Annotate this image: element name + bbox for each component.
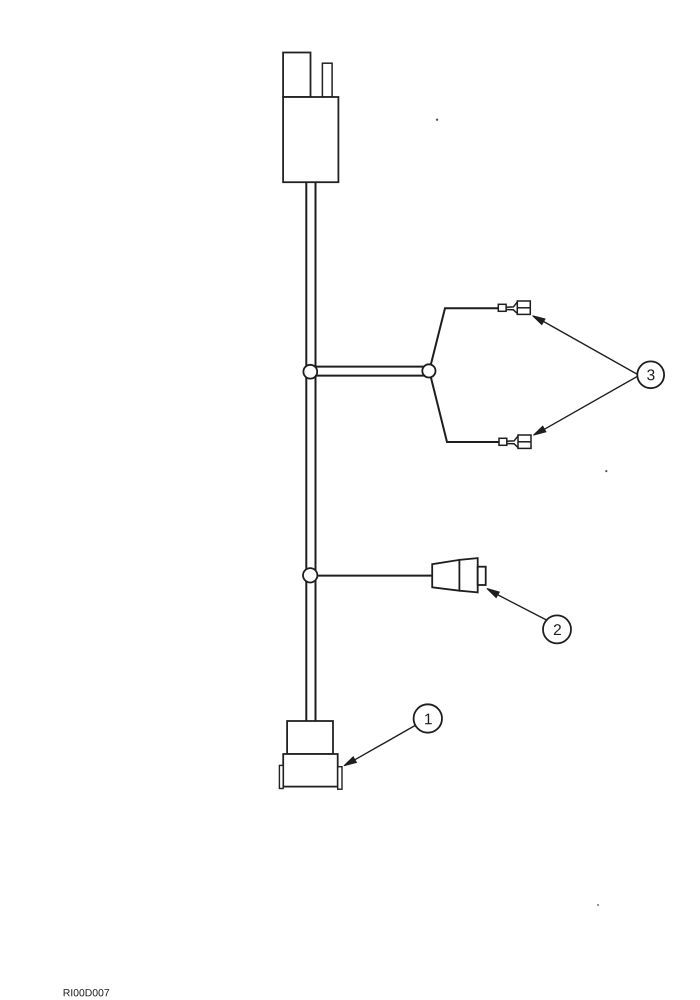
speck top (436, 119, 438, 121)
callout circle 3 (637, 361, 664, 388)
connector 2 body trapezoid left (432, 560, 459, 591)
wire lower branch lead (431, 377, 499, 442)
callout circle 1 (414, 704, 442, 732)
junction C (303, 568, 317, 582)
wire upper branch lead (431, 308, 498, 365)
figure code RI00D007 (64, 989, 70, 996)
arrow from 1 to connector 1 (344, 725, 415, 765)
connector X1 main body (283, 97, 338, 182)
speck middle (605, 470, 607, 472)
arrow from 2 to connector 2 (487, 589, 546, 620)
connector 1 upper body (287, 721, 333, 754)
arrow from 3 to terminal T1 (533, 316, 638, 375)
connector X1 top housing small block (283, 53, 310, 98)
wire branch horizontal lower conductor (310, 375, 429, 377)
junction B (422, 364, 435, 377)
wire branch single to connector 2 (310, 575, 433, 577)
wire main vertical right conductor (315, 183, 317, 721)
connector 2 nose (478, 567, 486, 585)
terminal T1 upper spade (498, 301, 530, 314)
connector 1 right tab (338, 767, 342, 790)
connector X1 top housing tab (322, 63, 332, 97)
terminal T2 lower spade (499, 435, 531, 448)
speck bottom (597, 904, 599, 906)
connector 2 body trapezoid right (459, 558, 477, 592)
junction A (303, 365, 317, 379)
arrow from 3 to terminal T2 (533, 376, 637, 435)
callout circle 2 (543, 615, 571, 643)
wire branch horizontal upper conductor (310, 366, 429, 368)
connector 1 left tab (279, 765, 283, 788)
wire main vertical left conductor (305, 183, 307, 721)
connector 1 lower body (283, 754, 338, 787)
